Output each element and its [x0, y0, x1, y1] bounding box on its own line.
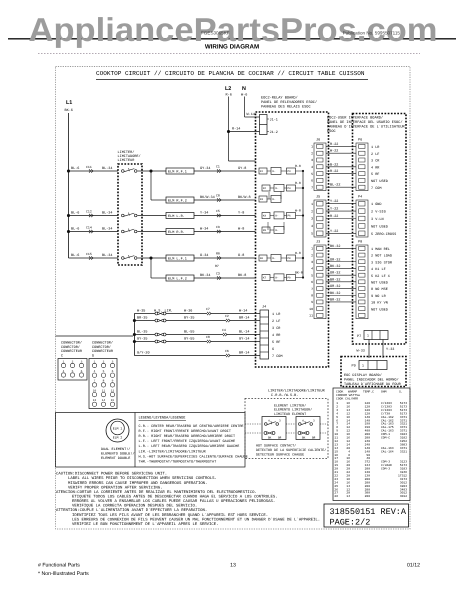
svg-text:W-33: W-33: [357, 349, 365, 354]
svg-text:6: 6: [81, 370, 83, 373]
svg-text:7: 7: [94, 380, 96, 383]
wire J5-P4 R-22: [326, 218, 356, 220]
wire J6-P6 B-22: [326, 166, 356, 168]
surface switch row 5: [134, 355, 226, 357]
wire J3-P8 BK-32: [326, 294, 356, 296]
svg-text:8 NO MSE: 8 NO MSE: [371, 287, 388, 292]
svg-text:K5: K5: [263, 229, 267, 232]
svg-text:1: 1: [311, 145, 313, 149]
svg-text:BL-14: BL-14: [239, 329, 250, 334]
svg-text:C/1303: C/1303: [381, 401, 392, 405]
svg-text:ATENCION:CORTAR LA CORRIENTE A: ATENCION:CORTAR LA CORRIENTE ANTES DE RE…: [56, 490, 257, 495]
svg-text:R.R.- RIGHT REAR/TRASERO DEREC: R.R.- RIGHT REAR/TRASERO DERECHO/ARRIERE…: [139, 434, 236, 439]
svg-text:ESOC: ESOC: [327, 129, 336, 134]
svg-text:7: 7: [311, 185, 313, 189]
svg-text:BK-34: BK-34: [200, 273, 211, 278]
svg-text:BL-6: BL-6: [71, 253, 79, 258]
svg-text:CAL-164: CAL-164: [381, 450, 394, 453]
svg-text:C/1303: C/1303: [381, 408, 392, 412]
svg-text:Y-33: Y-33: [386, 347, 394, 352]
svg-text:Y-34: Y-34: [200, 211, 208, 216]
svg-text:R-8: R-8: [295, 164, 301, 168]
svg-text:L.F.- LEFT FRONT/FRENTE IZQUIE: L.F.- LEFT FRONT/FRENTE IZQUIERDA/AVANT …: [139, 439, 236, 444]
svg-text:2: 2: [311, 209, 313, 213]
relay coil link rows: [268, 192, 270, 199]
svg-text:ERRORES AL VOLVER A ENSAMBLAR: ERRORES AL VOLVER A ENSAMBLAR LOS CABLES…: [72, 499, 275, 504]
svg-text:6: 6: [112, 370, 114, 373]
svg-text:NOT USED: NOT USED: [371, 224, 388, 229]
svg-text:C15: C15: [86, 252, 92, 256]
relay circuit row 2: [262, 185, 270, 191]
svg-text:PANNEAU DES RELAIS ESOC: PANNEAU DES RELAIS ESOC: [261, 105, 311, 110]
svg-text:W-35: W-35: [137, 308, 145, 313]
element box ELM R.R.: [166, 229, 194, 235]
svg-text:EOC DISPLAY BOARD/: EOC DISPLAY BOARD/: [344, 373, 382, 378]
relay bus vertical: [302, 171, 304, 277]
svg-text:C1: C1: [216, 165, 220, 169]
svg-text:C14: C14: [86, 225, 92, 229]
svg-text:3012: 3012: [400, 495, 407, 498]
junction on L1 row 2: [67, 214, 70, 217]
svg-text:3 CR: 3 CR: [371, 159, 380, 164]
svg-text:D: D: [92, 353, 94, 358]
wire limiter to ELM L.F.1: [142, 257, 166, 259]
limiter legend wires: [245, 423, 262, 425]
svg-text:C6: C6: [225, 349, 229, 353]
element box ELM L.F.2: [166, 275, 194, 281]
svg-text:4 RR: 4 RR: [272, 333, 281, 338]
svg-text:Publication No. 5995507115: Publication No. 5995507115: [343, 31, 401, 36]
svg-text:IDENTIFIEZ TOUS LES FILS AVANT: IDENTIFIEZ TOUS LES FILS AVANT DE LES DE…: [72, 513, 268, 518]
surface switch row 2: [134, 320, 155, 322]
svg-text:R-22: R-22: [330, 169, 338, 174]
svg-text:W-8: W-8: [238, 227, 244, 232]
header rule: [8, 38, 456, 40]
svg-text:PANEL DE INTERFACE DEL USARIO: PANEL DE INTERFACE DEL USARIO ESOC/: [327, 120, 402, 125]
svg-text:9: 9: [311, 300, 313, 304]
svg-text:K-: K-: [273, 170, 277, 173]
svg-text:G/Y-20: G/Y-20: [137, 350, 150, 355]
svg-text:R7: R7: [215, 264, 219, 268]
svg-text:BR-14: BR-14: [239, 315, 250, 320]
svg-text:C11: C11: [86, 165, 92, 169]
svg-text:ELM R.F.1: ELM R.F.1: [168, 169, 187, 174]
svg-text:BR: BR: [312, 437, 316, 440]
svg-text:P7: P7: [357, 334, 361, 339]
svg-text:COM-3: COM-3: [381, 468, 390, 471]
svg-text:R.F.- RIGHT FRONT/FRENTE DEREC: R.F.- RIGHT FRONT/FRENTE DERECHO/AVANT D…: [139, 429, 231, 434]
svg-text:9: 9: [112, 380, 114, 383]
svg-text:7 COM: 7 COM: [272, 354, 283, 359]
svg-text:NOT USED: NOT USED: [371, 307, 388, 312]
svg-text:CONNECTOR/: CONNECTOR/: [92, 341, 113, 346]
svg-text:BL-35: BL-35: [137, 329, 148, 334]
svg-text:1 LR: 1 LR: [272, 312, 281, 317]
svg-text:VERIFY PROPER OPERATION AFTER: VERIFY PROPER OPERATION AFTER SERVICING.: [68, 485, 163, 490]
relay circuit row 3: [259, 196, 267, 202]
relay circuit row 7: [262, 275, 270, 281]
svg-text:LES ERREURS DE CONNEXION DE FI: LES ERREURS DE CONNEXION DE FILS PEUVENT…: [72, 517, 320, 522]
wire into J4 row 1: [211, 313, 260, 315]
svg-text:C9: C9: [216, 225, 220, 229]
svg-text:5 K2 LF X: 5 K2 LF X: [371, 274, 391, 279]
svg-text:2 V-SIG: 2 V-SIG: [371, 210, 386, 215]
relay circuit row 4: [262, 213, 270, 219]
wire J3-P8 BR-32: [326, 281, 356, 283]
svg-text:LIMITEUR ELEMENT: LIMITEUR ELEMENT: [274, 412, 306, 417]
relay circuit row 5: [262, 227, 270, 233]
svg-text:PANEL INDICADOR DEL HORNO/: PANEL INDICADOR DEL HORNO/: [344, 378, 399, 383]
svg-text:K2: K2: [263, 187, 267, 190]
svg-text:COM-C: COM-C: [381, 437, 390, 440]
svg-text:ELEMENT DOUBLE: ELEMENT DOUBLE: [101, 456, 130, 461]
svg-text:15: 15: [111, 399, 115, 402]
svg-text:OR-32: OR-32: [330, 284, 341, 289]
svg-text:Y-22: Y-22: [330, 199, 338, 204]
svg-text:C8: C8: [206, 335, 210, 339]
bank bus junction 4: [133, 340, 136, 343]
limiter switch row 2: [122, 214, 125, 217]
svg-text:* Non-Illustrated Parts: * Non-Illustrated Parts: [38, 571, 89, 577]
svg-text:BY-35: BY-35: [184, 315, 195, 320]
wire J5-P4 Y-22: [326, 232, 356, 234]
svg-text:CONNECTEUR: CONNECTEUR: [92, 349, 114, 354]
svg-text:GY-34: GY-34: [200, 166, 211, 171]
svg-text:BL-34: BL-34: [102, 166, 113, 171]
part number box: [324, 504, 409, 527]
svg-text:200: 200: [365, 495, 371, 498]
svg-text:R8: R8: [216, 252, 220, 256]
svg-text:W-22: W-22: [330, 149, 338, 154]
svg-text:BR-32: BR-32: [330, 277, 341, 282]
connector section divider: [56, 335, 134, 337]
relay bus junction row 6: [302, 257, 304, 259]
wire limiter to ELM L.R.: [142, 215, 166, 217]
svg-text:TABLEAU D`AFFICHAGE DU FOUR: TABLEAU D`AFFICHAGE DU FOUR: [344, 382, 402, 387]
junction L2/R-14: [227, 130, 230, 133]
svg-text:R-14: R-14: [232, 127, 240, 132]
svg-text:R-22: R-22: [330, 214, 338, 219]
limiter switch row 1: [122, 170, 125, 173]
svg-text:GY-8: GY-8: [238, 166, 246, 171]
svg-text:4 RR: 4 RR: [371, 165, 380, 170]
svg-text:K4: K4: [263, 215, 267, 218]
dashed rule under heading: [38, 53, 420, 55]
svg-text:BL-55: BL-55: [184, 329, 195, 334]
svg-text:10 KY VN: 10 KY VN: [371, 301, 388, 306]
svg-text:BK-6: BK-6: [65, 108, 73, 113]
wire limiter to ELM R.R.: [142, 231, 166, 233]
dual element symbol: [106, 419, 129, 442]
svg-text:6: 6: [311, 179, 313, 183]
svg-text:H.S. LIM.: H.S. LIM.: [154, 308, 173, 313]
diagram frame: [56, 67, 411, 530]
svg-text:GY-14: GY-14: [239, 336, 250, 341]
svg-text:W-14: W-14: [239, 308, 247, 313]
svg-text:DETECTOR DE LA SUPERFICIE CALI: DETECTOR DE LA SUPERFICIE CALIENTE/: [256, 448, 326, 453]
svg-text:1: 1: [311, 202, 313, 206]
svg-text:3 CR: 3 CR: [272, 326, 281, 331]
svg-text:MISWIRED ERRORS CAN CAUSE IMPR: MISWIRED ERRORS CAN CAUSE IMPROPER AND D…: [68, 481, 207, 486]
svg-text:CONECTOR/: CONECTOR/: [92, 345, 111, 350]
wire L2 drop: [228, 97, 230, 162]
svg-text:B-22: B-22: [330, 162, 338, 167]
svg-text:K-: K-: [276, 187, 280, 190]
svg-text:BL-22: BL-22: [330, 183, 341, 188]
wire J6-P6 W-22: [326, 152, 356, 154]
element box ELM R.F.2: [166, 197, 194, 203]
svg-text:BK-32: BK-32: [330, 244, 341, 249]
svg-text:NOT USED: NOT USED: [371, 179, 388, 184]
svg-text:P6: P6: [288, 215, 292, 218]
svg-text:PANEL DE RELEVADORES ESOC/: PANEL DE RELEVADORES ESOC/: [261, 100, 317, 105]
svg-text:Y-8: Y-8: [238, 211, 244, 216]
relay bus junction row 4: [302, 214, 304, 216]
wire L1 branch row 4: [69, 257, 119, 259]
svg-text:2: 2: [72, 360, 74, 363]
svg-text:2 LF: 2 LF: [272, 319, 280, 324]
svg-text:3: 3: [311, 158, 313, 162]
wire branch to ELM L.F.2: [150, 258, 152, 278]
svg-text:5: 5: [103, 370, 105, 373]
svg-text:C3: C3: [216, 272, 220, 276]
wire ELM R.R. to relay board: [194, 231, 256, 233]
svg-text:BR-35: BR-35: [137, 315, 148, 320]
wire Y-33: [382, 340, 384, 359]
svg-text:14: 14: [102, 399, 106, 402]
svg-text:C.R.B./W.S.B.: C.R.B./W.S.B.: [271, 393, 298, 398]
wire table box: [333, 388, 410, 501]
svg-text:C/730: C/730: [381, 411, 390, 415]
svg-text:C: C: [61, 353, 63, 358]
svg-text:12: 12: [111, 389, 115, 392]
svg-text:6: 6: [272, 347, 274, 352]
svg-text:3: 3: [81, 360, 83, 363]
svg-text:K-: K-: [276, 277, 280, 280]
element box ELM L.F.1: [166, 255, 194, 261]
svg-text:ELM L.F.1: ELM L.F.1: [168, 256, 187, 261]
svg-text:9 NO LR: 9 NO LR: [371, 294, 387, 299]
svg-text:W-14: W-14: [247, 112, 255, 117]
svg-text:K6: K6: [260, 257, 264, 260]
limiter switch row 3: [122, 230, 125, 233]
svg-text:DUAL ELEMENT!/: DUAL ELEMENT!/: [101, 447, 130, 452]
svg-text:2 LF: 2 LF: [371, 152, 379, 157]
svg-text:J5: J5: [316, 195, 320, 200]
svg-text:R-8: R-8: [295, 181, 301, 185]
connector J1: [260, 115, 268, 135]
svg-text:C4: C4: [222, 328, 226, 332]
svg-text:CONNECTOR/: CONNECTOR/: [61, 341, 82, 346]
svg-text:O-8: O-8: [238, 253, 244, 258]
svg-text:R-22: R-22: [330, 142, 338, 147]
wire L1 branch row 3: [69, 231, 119, 233]
title underline: [96, 79, 368, 81]
svg-text:2: 2: [311, 253, 313, 257]
surface switch row 4: [134, 341, 155, 343]
svg-text:PANNEAU D`INTERFACE DE L`UTILI: PANNEAU D`INTERFACE DE L`UTILISATEUR: [327, 125, 405, 130]
svg-text:13: 13: [230, 563, 236, 569]
wire ELM L.F.1 to relay board: [194, 257, 256, 259]
junction node RF: [149, 169, 152, 172]
svg-text:VERIFIQUE LA CORRECTA OPERACIO: VERIFIQUE LA CORRECTA OPERACION DESPUES …: [72, 504, 197, 509]
svg-text:3: 3: [311, 217, 313, 221]
svg-text:5: 5: [72, 370, 74, 373]
svg-text:FGES3065KF: FGES3065KF: [201, 31, 230, 36]
svg-text:5 RF: 5 RF: [272, 340, 280, 345]
wire L1 branch row 2: [69, 215, 119, 217]
svg-text:W-36: W-36: [184, 308, 192, 313]
wire L1 branch row 1: [69, 170, 119, 172]
svg-text:K-: K-: [276, 215, 280, 218]
svg-text:7: 7: [311, 287, 313, 291]
svg-text:TEMP.C: TEMP.C: [363, 390, 374, 394]
svg-text:4: 4: [63, 370, 65, 373]
wire ELM R.F.1 to relay board: [194, 170, 256, 172]
svg-text:BR: BR: [278, 437, 282, 440]
svg-text:5 ZERO-CROSS: 5 ZERO-CROSS: [371, 232, 396, 237]
surface switch row 1: [134, 313, 155, 315]
svg-text:BL-34: BL-34: [102, 253, 113, 258]
svg-text:3 V-LN: 3 V-LN: [371, 217, 384, 222]
svg-text:BL-6: BL-6: [71, 166, 79, 171]
svg-text:ATTENTION:COUPLE L`ALIMENTATIO: ATTENTION:COUPLE L`ALIMENTATION AVANT D`…: [56, 508, 207, 513]
limiter contact box left: [262, 417, 286, 440]
wire W-14 to J1-1: [245, 116, 260, 118]
svg-text:13: 13: [93, 399, 97, 402]
wire into J4 row 3: [227, 334, 260, 336]
svg-text:3: 3: [311, 260, 313, 264]
wire L2 lower feed: [229, 160, 256, 162]
wire ELM L.F.2 to relay board: [194, 277, 256, 279]
svg-text:1: 1: [94, 360, 96, 363]
svg-text:10: 10: [309, 307, 313, 311]
relay bus junction row 2: [302, 187, 304, 189]
svg-text:J4: J4: [262, 305, 266, 310]
svg-text:1: 1: [362, 364, 364, 368]
svg-text:THM.-THERMOSTAT/TERMOSTATO/THE: THM.-THERMOSTAT/TERMOSTATO/THERMOSTAT: [139, 459, 217, 464]
svg-text:K1: K1: [260, 170, 264, 173]
svg-text:BK-8: BK-8: [295, 271, 303, 275]
svg-text:OR-32: OR-32: [330, 257, 341, 262]
svg-text:BK-8: BK-8: [238, 273, 246, 278]
wire L1 vertical bus: [68, 113, 70, 258]
svg-text:5 RF: 5 RF: [371, 172, 379, 177]
limiter switch row 4: [122, 257, 125, 260]
svg-text:C.R.- CENTER REAR/TRASERO DE C: C.R.- CENTER REAR/TRASERO DE CENTRO/ARRI…: [139, 424, 244, 429]
svg-text:3321: 3321: [400, 450, 407, 453]
svg-text:VERIFIEZ LE BON FONCTIONNEMENT: VERIFIEZ LE BON FONCTIONNEMENT DE L`APPA…: [72, 522, 219, 527]
wire into J4 row 4: [211, 341, 260, 343]
wire branch to ELM R.F.2: [150, 171, 152, 200]
svg-text:P8: P8: [288, 257, 292, 260]
svg-text:6: 6: [311, 280, 313, 284]
svg-text:CAUTION:DISCONNECT POWER BEFOR: CAUTION:DISCONNECT POWER BEFORE SERVICIN…: [56, 472, 167, 477]
svg-text:N: N: [242, 86, 246, 92]
svg-text:EOC2-RELAY BOARD/: EOC2-RELAY BOARD/: [261, 96, 298, 101]
svg-text:J3: J3: [316, 240, 320, 245]
svg-text:K7: K7: [263, 277, 267, 280]
wire into J4 row 2: [230, 320, 260, 322]
svg-text:3: 3: [112, 360, 114, 363]
surface switch row 3: [134, 334, 155, 336]
svg-text:BL-6: BL-6: [71, 227, 79, 232]
svg-text:Y-22: Y-22: [330, 207, 338, 212]
svg-text:BK-32: BK-32: [330, 264, 341, 269]
wire J3-P8 BK-32: [326, 247, 356, 249]
bank bus junction 2: [133, 319, 136, 322]
svg-text:K-: K-: [276, 229, 280, 232]
relay bus junction row 7: [302, 276, 304, 278]
svg-text:318550151 REV:A: 318550151 REV:A: [330, 507, 407, 517]
svg-text:LIM.-LIMITER/LIMITADORE/LIMITE: LIM.-LIMITER/LIMITADORE/LIMITEUR: [139, 449, 207, 454]
svg-text:14: 14: [346, 495, 350, 498]
svg-text:11: 11: [309, 314, 313, 318]
svg-text:2 NOT LOAD: 2 NOT LOAD: [371, 254, 392, 259]
limiter legend dashed box: [245, 399, 328, 459]
svg-text:L1: L1: [66, 100, 72, 106]
svg-text:CONNECTEUR: CONNECTEUR: [61, 349, 83, 354]
svg-text:1: 1: [63, 360, 65, 363]
svg-text:AppliancePartsPros.com: AppliancePartsPros.com: [29, 11, 438, 48]
svg-text:CONECTOR/: CONECTOR/: [61, 345, 80, 350]
svg-text:8: 8: [103, 380, 105, 383]
svg-text:GY-55: GY-55: [184, 336, 195, 341]
relay bus junction row 1: [302, 170, 304, 172]
section divider: [134, 413, 136, 468]
svg-text:BR-14: BR-14: [239, 350, 250, 355]
svg-text:4: 4: [94, 370, 96, 373]
element box ELM R.F.1: [166, 168, 194, 174]
svg-text:LIMITER/LIMITADORE/LIMITEUR: LIMITER/LIMITADORE/LIMITEUR: [268, 389, 326, 394]
wire into J4 row 5: [230, 355, 260, 357]
svg-text:S.: S.: [399, 390, 403, 394]
wire J6-P6 BL-22: [326, 186, 356, 188]
svg-text:J6: J6: [316, 138, 320, 143]
svg-text:BK-32: BK-32: [330, 291, 341, 296]
svg-text:3 SIG STOR: 3 SIG STOR: [371, 260, 393, 265]
svg-text:7 COM: 7 COM: [371, 186, 382, 191]
svg-text:J1-2: J1-2: [270, 130, 278, 135]
svg-text:28: 28: [334, 495, 338, 498]
svg-text:ELM 2: ELM 2: [113, 436, 123, 440]
wire J5-P4 Y-22: [326, 210, 356, 212]
wire R-14 to J1-2: [229, 131, 260, 133]
svg-text:K-: K-: [273, 257, 277, 260]
svg-text:2: 2: [311, 151, 313, 155]
svg-text:BL-34: BL-34: [102, 227, 113, 232]
svg-text:BL-6: BL-6: [71, 211, 79, 216]
svg-text:P6: P6: [358, 138, 362, 143]
relay circuit row 1: [259, 168, 267, 174]
svg-text:8: 8: [311, 293, 313, 297]
svg-text:5: 5: [311, 273, 313, 277]
svg-text:J1-1: J1-1: [270, 118, 278, 123]
connector D box: [89, 359, 117, 409]
wire ELM R.F.2 to relay board: [194, 199, 256, 201]
limiter dashed box: [118, 164, 142, 265]
junction on L1 row 3: [67, 230, 70, 233]
svg-text:O-34: O-34: [200, 253, 208, 258]
svg-text:ELM L.F.2: ELM L.F.2: [168, 276, 187, 281]
svg-text:ELM R.F.2: ELM R.F.2: [168, 198, 187, 203]
svg-text:K3: K3: [260, 198, 264, 201]
svg-text:BL-34: BL-34: [102, 211, 113, 216]
svg-text:4: 4: [311, 224, 313, 228]
svg-text:BK/W-34: BK/W-34: [200, 195, 215, 200]
svg-text:C/LOAD: C/LOAD: [381, 463, 392, 467]
wire J3-P8 OR-32: [326, 261, 356, 263]
